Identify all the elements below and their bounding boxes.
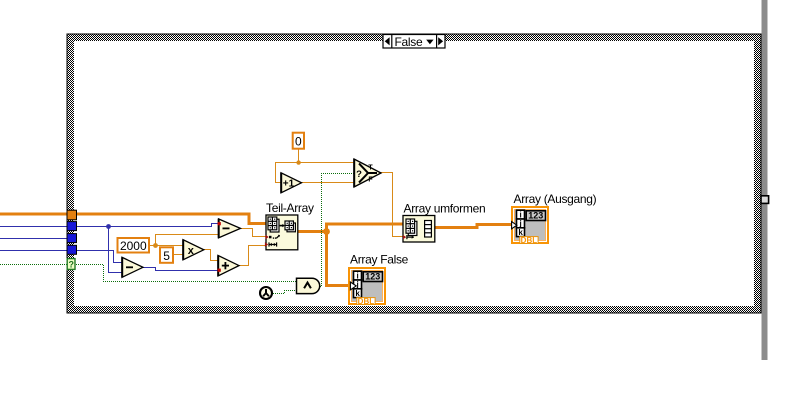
wire: junction down to Array False	[327, 230, 350, 286]
wire: 5 to multiply bottom input	[173, 254, 184, 256]
wire: Teil-Array output to junction	[298, 230, 329, 233]
junction dot on blue wire	[106, 224, 111, 229]
constant 2000	[118, 238, 150, 253]
add node	[218, 255, 239, 276]
case selector label "False"	[383, 35, 445, 49]
subtract node (top)	[219, 219, 241, 238]
wire: constant 0 down to junction	[298, 149, 300, 163]
wire: 2000 junction right to multiply top input	[156, 245, 184, 247]
wire: blue tunnel2 stub (outside only)	[0, 238, 68, 240]
svg-text:Array (Ausgang): Array (Ausgang)	[514, 192, 597, 206]
tunnel: blue tunnel 2	[67, 234, 77, 243]
svg-text:i: i	[519, 210, 521, 219]
Array umformen (Reshape Array) node	[403, 216, 435, 243]
wire: blue junction down to blue subtract bottom input	[109, 227, 123, 273]
wire: And gate output up to Select selector input	[320, 174, 355, 287]
constant 5	[160, 247, 173, 262]
Array False indicator	[349, 268, 385, 306]
wire: main thick orange array wire from left tunnel to Teil-Array	[0, 214, 267, 224]
svg-text:5: 5	[163, 249, 170, 263]
wire: subtract output to Teil-Array index input	[240, 229, 267, 237]
wire: Select output down to Array umformen dim input	[381, 173, 404, 237]
multiply node	[183, 240, 204, 260]
And gate	[297, 278, 320, 293]
svg-text:DBL: DBL	[358, 297, 375, 306]
wire: blue tunnel1 to subtract top input	[0, 224, 219, 227]
Array False input arrow	[350, 282, 356, 290]
svg-text:Array umformen: Array umformen	[404, 202, 486, 216]
junction dot on thick orange wire	[323, 228, 330, 235]
tunnel: orange array tunnel	[67, 210, 77, 220]
tunnel: blue tunnel 1	[67, 222, 77, 231]
svg-text:j: j	[355, 280, 358, 289]
wire: add output up to Teil-Array length input	[239, 246, 267, 266]
svg-text:123: 123	[528, 211, 543, 221]
Array (Ausgang) indicator	[512, 207, 548, 245]
wire: boolean dotted from left tunnel to And gate top input	[0, 265, 297, 282]
svg-text:DBL: DBL	[521, 236, 538, 245]
svg-text:i: i	[356, 271, 358, 280]
svg-text:2000: 2000	[120, 239, 147, 253]
wire: 2000 to junction dot	[149, 245, 156, 247]
wire: junction right to Select top input	[299, 162, 355, 164]
window edge gray bar	[762, 0, 768, 360]
subtract node (blue, lower-left)	[122, 257, 143, 277]
svg-text:123: 123	[365, 272, 380, 282]
svg-text:?: ?	[68, 259, 74, 269]
wire: multiply output to add top input	[204, 250, 219, 261]
tunnel: blue tunnel 3	[67, 245, 77, 254]
wire: blue tunnel3 to blue subtract top input	[0, 251, 123, 263]
select node	[354, 159, 381, 187]
junction dot at 2000 output	[153, 243, 158, 248]
case structure border (dithered frame)	[67, 34, 761, 313]
index input red arrow	[265, 235, 268, 239]
length input red arrow	[265, 242, 268, 246]
svg-text:False: False	[395, 35, 423, 49]
svg-text:+1: +1	[283, 179, 295, 190]
wire: junction left-down to +1 input	[276, 163, 299, 183]
junction dot under constant 0	[296, 160, 300, 164]
coercion dot at add bottom input	[218, 269, 221, 272]
tunnel: unwired boolean tunnel "?"	[67, 259, 75, 270]
wire: +1 output to Select bottom input	[301, 182, 355, 184]
wire: junction up to Array umformen input	[327, 224, 404, 233]
constant 0	[293, 133, 304, 149]
wire: clock output to And gate bottom input	[273, 291, 297, 294]
Teil-Array (Array Subset) node	[265, 215, 298, 250]
structure resize handle	[761, 196, 769, 204]
Array (Ausgang) input arrow	[512, 222, 517, 229]
increment +1 node	[281, 173, 302, 193]
svg-text:j: j	[518, 219, 521, 228]
wire: blue subtract output to add bottom input	[143, 268, 219, 271]
svg-text:0: 0	[295, 134, 302, 148]
svg-text:Array False: Array False	[350, 252, 409, 266]
Wait-ms clock function	[260, 287, 272, 299]
svg-text:?: ?	[356, 169, 362, 180]
svg-text:Teil-Array: Teil-Array	[266, 201, 314, 215]
svg-text:F: F	[368, 177, 373, 184]
wire: Array umformen output to Array (Ausgang)	[435, 225, 513, 228]
svg-text:T: T	[368, 165, 373, 172]
svg-text:x: x	[188, 245, 195, 257]
coercion dot at subtract top input	[218, 222, 221, 225]
dimension input red arrow	[403, 235, 406, 239]
wire: 2000 junction up to subtract bottom input	[156, 235, 219, 246]
